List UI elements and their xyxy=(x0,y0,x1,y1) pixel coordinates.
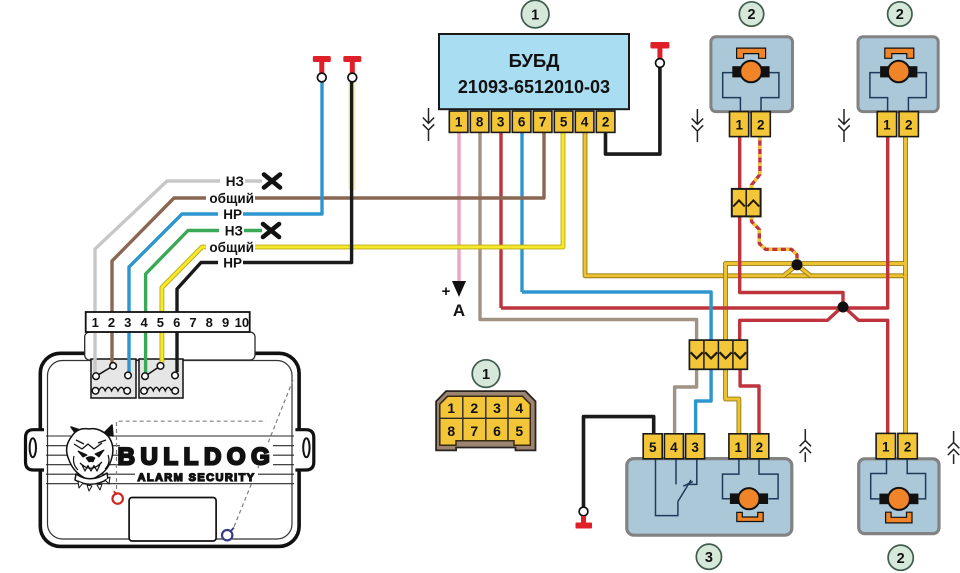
svg-text:ALARM SECURITY: ALARM SECURITY xyxy=(138,472,256,484)
svg-text:3: 3 xyxy=(691,440,699,455)
svg-text:+: + xyxy=(442,283,451,300)
svg-text:8: 8 xyxy=(476,115,484,130)
svg-text:5: 5 xyxy=(649,440,657,455)
svg-text:9: 9 xyxy=(222,315,229,330)
svg-text:BULLDOG: BULLDOG xyxy=(118,444,276,471)
svg-text:2: 2 xyxy=(470,400,478,416)
svg-text:2: 2 xyxy=(897,551,905,567)
svg-text:1: 1 xyxy=(882,440,890,455)
svg-text:2: 2 xyxy=(757,118,765,133)
svg-text:1: 1 xyxy=(447,400,455,416)
svg-text:8: 8 xyxy=(447,423,455,439)
svg-text:7: 7 xyxy=(539,115,547,130)
svg-text:6: 6 xyxy=(173,315,180,330)
svg-text:1: 1 xyxy=(455,115,463,130)
svg-text:БУБД: БУБД xyxy=(509,50,560,71)
svg-text:1: 1 xyxy=(883,118,891,133)
svg-text:НР: НР xyxy=(223,207,242,222)
svg-text:2: 2 xyxy=(108,315,115,330)
svg-text:2: 2 xyxy=(896,7,904,23)
svg-text:2: 2 xyxy=(602,115,610,130)
svg-text:1: 1 xyxy=(531,7,539,23)
svg-text:2: 2 xyxy=(747,7,755,23)
svg-text:21093-6512010-03: 21093-6512010-03 xyxy=(458,77,610,97)
svg-text:НЗ: НЗ xyxy=(225,224,243,239)
svg-text:7: 7 xyxy=(189,315,196,330)
svg-text:1: 1 xyxy=(92,315,99,330)
svg-text:4: 4 xyxy=(140,315,148,330)
svg-text:3: 3 xyxy=(497,115,505,130)
svg-text:4: 4 xyxy=(581,115,589,130)
svg-text:1: 1 xyxy=(735,118,743,133)
svg-text:5: 5 xyxy=(157,315,164,330)
svg-text:2: 2 xyxy=(904,440,912,455)
svg-text:8: 8 xyxy=(206,315,213,330)
svg-text:4: 4 xyxy=(670,440,678,455)
svg-text:6: 6 xyxy=(518,115,526,130)
svg-text:3: 3 xyxy=(124,315,131,330)
svg-text:2: 2 xyxy=(905,118,913,133)
svg-text:6: 6 xyxy=(493,423,501,439)
svg-text:общий: общий xyxy=(209,191,254,206)
svg-text:1: 1 xyxy=(482,367,490,383)
svg-text:2: 2 xyxy=(756,440,764,455)
svg-text:1: 1 xyxy=(735,440,743,455)
svg-text:3: 3 xyxy=(493,400,501,416)
svg-text:НР: НР xyxy=(223,256,242,271)
svg-text:5: 5 xyxy=(515,423,523,439)
svg-text:7: 7 xyxy=(470,423,478,439)
svg-text:5: 5 xyxy=(560,115,568,130)
svg-text:НЗ: НЗ xyxy=(226,174,244,189)
svg-text:3: 3 xyxy=(705,550,713,566)
svg-text:А: А xyxy=(453,301,465,320)
svg-text:4: 4 xyxy=(515,400,523,416)
svg-text:10: 10 xyxy=(235,315,249,330)
svg-text:общий: общий xyxy=(209,240,254,255)
